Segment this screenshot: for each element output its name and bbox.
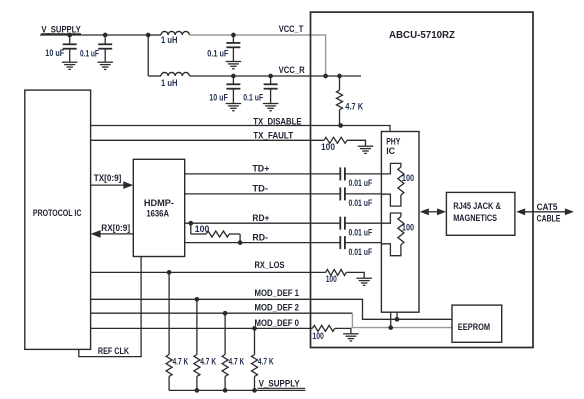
wire TX_FAULT bbox=[91, 139, 324, 141]
wire REF CLK bbox=[79, 257, 141, 357]
wire R3 to RD- bbox=[229, 234, 240, 243]
label 100 (R2) bbox=[321, 142, 335, 152]
ground of TX_FAULT bbox=[358, 146, 374, 153]
junction pull-up R8 bbox=[167, 270, 172, 275]
label PHY bbox=[386, 136, 400, 146]
svg-text:100: 100 bbox=[195, 224, 210, 234]
wire TD- bbox=[185, 193, 382, 195]
svg-text:100: 100 bbox=[321, 142, 335, 152]
junction rail R10 bbox=[223, 388, 228, 393]
RJ45 jack box bbox=[446, 192, 515, 235]
wire R7 to ground bbox=[335, 328, 351, 333]
resistor R8 4.7K bbox=[166, 355, 172, 377]
inductor L2 1uH bbox=[161, 72, 189, 76]
junction on VCC_T at C3 bbox=[231, 33, 236, 38]
wire MOD_DEF 2 bbox=[91, 312, 353, 314]
arrow RJ45 to CAT5 cable bbox=[516, 208, 574, 215]
svg-text:MOD_DEF 1: MOD_DEF 1 bbox=[255, 288, 300, 299]
label 4.7 K (R9) bbox=[200, 357, 216, 367]
wire TD+ bbox=[185, 173, 382, 175]
svg-text:0.1 uF: 0.1 uF bbox=[207, 49, 229, 59]
wire PHY to MOD_DEF1 stub bbox=[396, 312, 398, 319]
svg-text:TD-: TD- bbox=[252, 183, 268, 194]
capacitor C4 10uF bbox=[226, 76, 240, 104]
svg-text:RX[0:9]: RX[0:9] bbox=[101, 223, 130, 233]
junction RD- termination bbox=[238, 240, 243, 245]
label 0.01 uF (C9) bbox=[349, 247, 373, 257]
svg-text:0.01 uF: 0.01 uF bbox=[349, 198, 373, 208]
svg-text:MAGNETICS: MAGNETICS bbox=[453, 213, 497, 223]
svg-text:100: 100 bbox=[312, 331, 324, 341]
module box ABCU-5710RZ bbox=[311, 12, 534, 347]
wire R10 to V_SUPPLY rail bbox=[224, 376, 226, 390]
svg-text:4.7 K: 4.7 K bbox=[173, 357, 189, 367]
wire RD- bbox=[185, 242, 382, 244]
svg-text:MOD_DEF 0: MOD_DEF 0 bbox=[255, 318, 300, 329]
PHY IC box bbox=[381, 132, 419, 313]
label ABCU-5710RZ bbox=[389, 29, 456, 41]
label 10 uF (C4) bbox=[209, 92, 228, 102]
node MOD_DEF 0 label bbox=[255, 318, 300, 329]
label RJ45 JACK & bbox=[453, 201, 501, 211]
svg-text:TX_DISABLE: TX_DISABLE bbox=[253, 116, 301, 127]
label EEPROM bbox=[458, 322, 490, 332]
capacitor C6 0.01uF (TD+) bbox=[340, 167, 345, 180]
label PROTOCOL IC bbox=[33, 208, 82, 218]
ground of RX_LOS bbox=[356, 278, 372, 285]
SERDES HDMP-1636A box bbox=[133, 159, 184, 256]
node CAT5 label bbox=[537, 202, 559, 213]
wire R8 to V_SUPPLY rail bbox=[168, 376, 170, 390]
svg-text:4.7 K: 4.7 K bbox=[345, 102, 363, 112]
wire TX_DISABLE bbox=[91, 126, 390, 132]
arrow PHY to RJ45 bbox=[420, 208, 446, 215]
label HDMP- bbox=[144, 198, 174, 208]
junction rail R9 bbox=[195, 388, 200, 393]
svg-text:100: 100 bbox=[326, 274, 337, 284]
wire MOD_DEF 1 bbox=[91, 299, 452, 319]
label 100 (R4) bbox=[402, 173, 414, 183]
capacitor C9 0.01uF (RD-) bbox=[340, 236, 345, 249]
junction on VCC_R at C5 bbox=[268, 74, 273, 79]
wire signal to R8 bbox=[168, 272, 170, 354]
junction MOD_DEF1 to PHY bbox=[395, 317, 400, 322]
node V_SUPPLY (bottom label) bbox=[257, 379, 305, 390]
resistor R3 100 (RD termination) bbox=[206, 231, 229, 237]
wire branch down to VCC_R filter bbox=[148, 35, 161, 76]
svg-text:V_SUPPLY: V_SUPPLY bbox=[41, 24, 81, 34]
node MOD_DEF 1 label bbox=[255, 288, 300, 299]
svg-text:CABLE: CABLE bbox=[537, 213, 561, 224]
resistor R6 100 (RX_LOS) bbox=[326, 269, 347, 275]
svg-text:EEPROM: EEPROM bbox=[458, 322, 490, 332]
node VCC_R label bbox=[279, 65, 305, 76]
label 0.1 uF (C2) bbox=[80, 48, 99, 58]
svg-text:1 uH: 1 uH bbox=[161, 78, 178, 88]
label 1636A bbox=[146, 208, 169, 218]
wire V_SUPPLY top rail bbox=[40, 34, 161, 36]
wire R5 to RD- bbox=[381, 244, 401, 256]
junction rail R11 bbox=[252, 388, 257, 393]
wire VCC_R to R1 bbox=[339, 76, 341, 90]
ground of C1 bbox=[62, 62, 77, 69]
node VCC_T label bbox=[279, 24, 304, 35]
svg-text:0.1 uF: 0.1 uF bbox=[80, 48, 99, 58]
capacitor C8 0.01uF (RD+) bbox=[340, 217, 345, 230]
ground of C5 bbox=[263, 104, 279, 111]
junction RD+ termination bbox=[188, 221, 193, 226]
svg-text:CAT5: CAT5 bbox=[537, 202, 559, 213]
wire R11 to V_SUPPLY rail bbox=[254, 376, 256, 390]
node RD- label bbox=[252, 232, 268, 243]
node RD+ label bbox=[252, 213, 269, 224]
junction pull-up R11 bbox=[252, 326, 257, 331]
node TD- label bbox=[252, 183, 268, 194]
ground of C3 bbox=[226, 62, 242, 69]
junction pull-up R10 bbox=[223, 311, 228, 316]
node TX_DISABLE label bbox=[253, 116, 301, 127]
junction on VCC_R at C4 bbox=[231, 74, 236, 79]
resistor R1 4.7K bbox=[337, 90, 343, 110]
bus TX[0:9] arrow bbox=[91, 181, 134, 189]
resistor R9 4.7K bbox=[194, 355, 200, 377]
svg-text:PHY: PHY bbox=[386, 136, 400, 146]
wire VCC_R bbox=[189, 75, 361, 77]
svg-text:ABCU-5710RZ: ABCU-5710RZ bbox=[389, 29, 456, 41]
ground of MOD_DEF 0 bbox=[343, 334, 359, 341]
bus RX[0:9] label bbox=[101, 223, 130, 233]
bus TX[0:9] label bbox=[94, 173, 122, 183]
node TX_FAULT label bbox=[253, 130, 293, 141]
wire TD+ jog to R4 bbox=[381, 163, 401, 174]
label 4.7 K (R8) bbox=[173, 357, 189, 367]
svg-text:10 uF: 10 uF bbox=[45, 48, 64, 58]
label 100 (R6) bbox=[326, 274, 337, 284]
svg-text:IC: IC bbox=[386, 146, 395, 156]
svg-text:100: 100 bbox=[402, 223, 414, 233]
wire PHY to MOD_DEF2 stub bbox=[390, 312, 392, 327]
svg-text:RX_LOS: RX_LOS bbox=[255, 260, 285, 271]
wire signal to R9 bbox=[196, 299, 198, 354]
svg-text:TX[0:9]: TX[0:9] bbox=[94, 173, 122, 183]
junction VCC_R to pull-up R1 bbox=[337, 74, 342, 79]
junction to filter branch bbox=[146, 33, 151, 38]
junction on V_SUPPLY at C1 bbox=[67, 33, 72, 38]
wire RD+ bbox=[185, 222, 382, 224]
svg-text:0.01 uF: 0.01 uF bbox=[349, 178, 373, 188]
wire signal to R11 bbox=[254, 328, 256, 354]
label 0.1 uF (C3) bbox=[207, 49, 229, 59]
label 0.01 uF (C6) bbox=[349, 178, 373, 188]
label 0.1 uF (C5) bbox=[243, 92, 263, 102]
wire RD+ to R3 bbox=[191, 223, 206, 234]
svg-text:VCC_T: VCC_T bbox=[279, 24, 304, 35]
wire R2 to ground bbox=[347, 140, 366, 146]
wire MOD_DEF 2 to EEPROM (gray) bbox=[352, 313, 452, 327]
wire RD+ jog to R5 bbox=[381, 213, 401, 223]
node V_SUPPLY (top-left label) bbox=[41, 24, 81, 34]
resistor R10 4.7K bbox=[222, 355, 228, 377]
node MOD_DEF 2 label bbox=[255, 303, 300, 314]
capacitor C2 0.1uF bbox=[98, 35, 112, 62]
node TD+ label bbox=[252, 164, 269, 175]
label MAGNETICS bbox=[453, 213, 497, 223]
svg-text:RD-: RD- bbox=[252, 232, 268, 243]
label 10 uF (C1) bbox=[45, 48, 64, 58]
capacitor C1 10uF bbox=[63, 35, 77, 62]
EEPROM box bbox=[452, 305, 502, 342]
protocol IC box bbox=[25, 90, 91, 349]
node RX_LOS label bbox=[255, 260, 285, 271]
capacitor C5 0.1uF bbox=[264, 76, 278, 104]
wire signal to R10 bbox=[224, 313, 226, 354]
bus RX[0:9] arrow bbox=[91, 230, 134, 238]
wire VCC_T (gray) bbox=[189, 34, 325, 36]
node CABLE label bbox=[537, 213, 561, 224]
wire MOD_DEF 0 bbox=[91, 327, 313, 329]
wire R9 to V_SUPPLY rail bbox=[196, 376, 198, 390]
wire R4 to TD- bbox=[381, 194, 401, 206]
label 4.7 K (R11) bbox=[258, 357, 274, 367]
svg-text:RD+: RD+ bbox=[252, 213, 269, 224]
svg-text:HDMP-: HDMP- bbox=[144, 198, 174, 208]
label 0.01 uF (C8) bbox=[349, 228, 373, 238]
svg-text:PROTOCOL IC: PROTOCOL IC bbox=[33, 208, 82, 218]
svg-text:TX_FAULT: TX_FAULT bbox=[253, 130, 293, 141]
inductor L1 1uH bbox=[161, 31, 189, 35]
capacitor C3 0.1uF bbox=[226, 35, 240, 62]
label 1 uH (L1) bbox=[161, 35, 178, 45]
junction pull-up R9 bbox=[195, 297, 200, 302]
resistor R4 100 (TD termination) bbox=[398, 167, 404, 195]
label 4.7 K (R10) bbox=[229, 357, 245, 367]
junction TX_DISABLE/R1 bbox=[338, 123, 343, 128]
label 4.7 K (R1) bbox=[345, 102, 363, 112]
ground of C4 bbox=[226, 104, 242, 111]
label IC bbox=[386, 146, 395, 156]
svg-text:100: 100 bbox=[402, 173, 414, 183]
resistor R5 100 (RD termination) bbox=[398, 217, 404, 245]
label 100 (R7) bbox=[312, 331, 324, 341]
junction MOD_DEF2 to PHY bbox=[388, 325, 393, 330]
capacitor C7 0.01uF (TD-) bbox=[340, 187, 345, 200]
wire R1 to TX_DISABLE bbox=[339, 110, 341, 126]
junction VCC_T/VCC_R bbox=[323, 74, 328, 79]
svg-text:RJ45 JACK &: RJ45 JACK & bbox=[453, 201, 501, 211]
svg-text:4.7 K: 4.7 K bbox=[200, 357, 216, 367]
ground of C2 bbox=[97, 62, 113, 69]
svg-text:1636A: 1636A bbox=[146, 208, 169, 218]
svg-text:0.01 uF: 0.01 uF bbox=[349, 247, 373, 257]
svg-text:0.01 uF: 0.01 uF bbox=[349, 228, 373, 238]
wire V_SUPPLY bottom rail bbox=[169, 389, 305, 391]
svg-text:10 uF: 10 uF bbox=[209, 92, 228, 102]
junction on V_SUPPLY at C2 bbox=[103, 33, 108, 38]
svg-text:1 uH: 1 uH bbox=[161, 35, 178, 45]
wire VCC_T drop to VCC_R (gray) bbox=[325, 34, 327, 76]
svg-text:VCC_R: VCC_R bbox=[279, 65, 305, 76]
label 100 (R3) bbox=[195, 224, 210, 234]
label 0.01 uF (C7) bbox=[349, 198, 373, 208]
svg-text:REF CLK: REF CLK bbox=[98, 346, 130, 356]
svg-text:TD+: TD+ bbox=[252, 164, 269, 175]
label 1 uH (L2) bbox=[161, 78, 178, 88]
resistor R11 4.7K bbox=[252, 355, 258, 377]
resistor R7 100 (MOD_DEF 0) bbox=[312, 325, 334, 331]
svg-text:4.7 K: 4.7 K bbox=[258, 357, 274, 367]
svg-text:4.7 K: 4.7 K bbox=[229, 357, 245, 367]
label 100 (R5) bbox=[402, 223, 414, 233]
node REF CLK label bbox=[98, 346, 130, 356]
wire RX_LOS bbox=[91, 271, 326, 273]
svg-text:MOD_DEF 2: MOD_DEF 2 bbox=[255, 303, 300, 314]
svg-text:0.1 uF: 0.1 uF bbox=[243, 92, 263, 102]
resistor R2 100 (TX_FAULT) bbox=[324, 137, 347, 143]
wire R6 to ground bbox=[346, 272, 364, 278]
